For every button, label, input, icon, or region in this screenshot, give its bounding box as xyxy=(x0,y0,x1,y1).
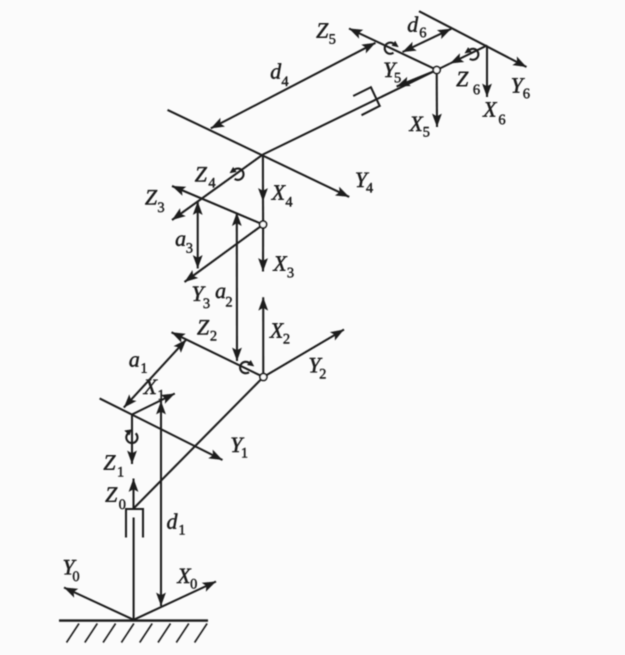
node X0 label xyxy=(177,569,197,589)
joint 4 rotation arc xyxy=(235,169,244,180)
node d4 label xyxy=(271,63,289,86)
dimension d4 xyxy=(211,43,376,129)
wire Y2 axis xyxy=(266,330,344,376)
node X3 label xyxy=(273,256,294,277)
wire X3 axis on link xyxy=(262,228,264,272)
node a1 label xyxy=(129,356,146,373)
wire Z5 axis xyxy=(349,29,434,69)
wire Z3 axis xyxy=(172,186,260,223)
wire X1 axis xyxy=(132,394,175,415)
wire forearm link frame4 to frame5 xyxy=(263,72,434,155)
node X6 label xyxy=(482,102,505,124)
node Y3 label xyxy=(193,286,210,308)
node X5 label xyxy=(409,117,430,137)
dimension a2 xyxy=(236,213,238,361)
joint 1 rotation arc xyxy=(126,433,137,444)
node Y2 label xyxy=(310,358,326,379)
wire Y4 axis line through O4 xyxy=(168,110,350,197)
wire Y5 axis xyxy=(397,72,434,87)
node Y0 label xyxy=(64,560,79,581)
wire Z2 axis xyxy=(172,332,261,375)
ground line xyxy=(59,619,208,621)
node Z5 label xyxy=(316,23,335,44)
wire shoulder link frame1 to frame2 xyxy=(134,379,261,508)
dimension d1 xyxy=(160,401,162,606)
wire Y3 axis xyxy=(185,226,261,282)
node O5 origin circle xyxy=(433,67,440,74)
wire X6 axis xyxy=(486,45,488,97)
wire Z1 axis xyxy=(131,415,133,465)
wire Y0 axis xyxy=(64,588,134,620)
wire Z4 axis xyxy=(172,155,263,221)
node d1 label xyxy=(167,513,185,534)
node Z4 label xyxy=(195,167,215,187)
wire X5 axis xyxy=(436,73,438,127)
prismatic column fork symbol xyxy=(126,509,143,538)
node Y5 label xyxy=(384,63,400,83)
ground hatching xyxy=(67,624,208,643)
node O3 origin circle xyxy=(260,221,267,228)
node X4 label xyxy=(271,185,292,206)
wire Z6 axis from frame6 toward frame5 xyxy=(450,45,487,63)
node Z0 label xyxy=(105,487,125,509)
gripper end-effector symbol xyxy=(353,87,380,115)
node Y4 label xyxy=(356,173,373,193)
node a2 label xyxy=(216,288,232,307)
joint 2 rotation arc xyxy=(240,362,249,373)
node X1 label xyxy=(143,380,164,400)
wire X0 axis xyxy=(134,582,216,620)
node a3 label xyxy=(176,235,193,252)
node Z2 label xyxy=(197,320,216,340)
dimension a1 xyxy=(124,340,187,408)
dimension d6 xyxy=(403,29,452,52)
joint 5 rotation arc xyxy=(385,43,394,54)
node Z1 label xyxy=(104,455,124,476)
wire X2 axis on link xyxy=(262,297,264,374)
node Y1 label xyxy=(231,438,247,458)
node O2 origin circle xyxy=(260,374,267,381)
wire X4 axis xyxy=(262,155,264,202)
node Y6 label xyxy=(512,78,530,98)
wire Y1 axis line xyxy=(100,398,223,460)
dimension a3 xyxy=(197,202,199,269)
node X2 label xyxy=(269,323,289,343)
wire Y6 axis top line xyxy=(419,11,527,67)
node Z3 label xyxy=(145,190,164,212)
wire Z0 axis xyxy=(132,479,134,509)
node Z6 label xyxy=(456,72,479,95)
wire base column xyxy=(133,518,135,620)
joint 6 rotation arc xyxy=(470,49,479,60)
node d6 label xyxy=(408,16,426,37)
